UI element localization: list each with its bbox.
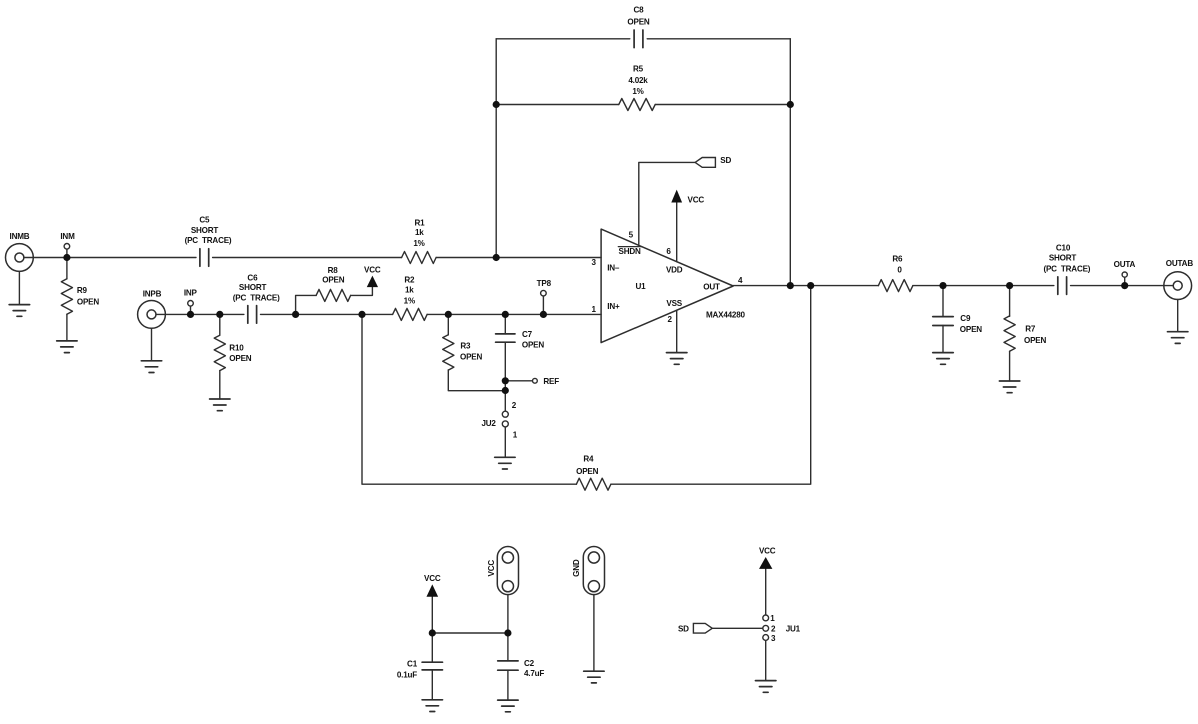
svg-text:4.02k: 4.02k bbox=[628, 76, 648, 85]
svg-text:2: 2 bbox=[771, 625, 776, 634]
svg-text:6: 6 bbox=[666, 247, 671, 256]
svg-text:1k: 1k bbox=[405, 286, 414, 295]
svg-text:4: 4 bbox=[738, 276, 743, 285]
svg-text:SHDN: SHDN bbox=[619, 247, 641, 256]
svg-text:SD: SD bbox=[678, 625, 689, 634]
svg-text:1: 1 bbox=[770, 614, 775, 623]
svg-text:OPEN: OPEN bbox=[627, 18, 649, 27]
svg-text:INP: INP bbox=[184, 289, 198, 298]
svg-text:R3: R3 bbox=[460, 341, 471, 350]
svg-text:TP8: TP8 bbox=[537, 279, 552, 288]
svg-text:C8: C8 bbox=[634, 5, 645, 14]
svg-text:(PC TRACE): (PC TRACE) bbox=[1043, 264, 1090, 273]
svg-text:INM: INM bbox=[60, 232, 75, 241]
svg-text:JU1: JU1 bbox=[786, 625, 801, 634]
svg-text:U1: U1 bbox=[636, 282, 647, 291]
svg-text:(PC TRACE): (PC TRACE) bbox=[185, 236, 232, 245]
svg-text:3: 3 bbox=[771, 634, 776, 643]
svg-text:1%: 1% bbox=[404, 296, 415, 305]
svg-text:0.1uF: 0.1uF bbox=[397, 670, 417, 679]
svg-text:OPEN: OPEN bbox=[576, 467, 598, 476]
svg-text:R7: R7 bbox=[1025, 325, 1036, 334]
svg-text:VCC: VCC bbox=[759, 547, 776, 556]
svg-text:OUTAB: OUTAB bbox=[1166, 259, 1194, 268]
svg-text:R1: R1 bbox=[415, 219, 426, 228]
svg-text:IN–: IN– bbox=[607, 264, 620, 273]
svg-text:SHORT: SHORT bbox=[239, 283, 267, 292]
svg-text:VCC: VCC bbox=[688, 195, 705, 204]
svg-text:VDD: VDD bbox=[666, 266, 683, 275]
svg-text:R6: R6 bbox=[892, 255, 903, 264]
svg-text:5: 5 bbox=[629, 231, 634, 240]
svg-text:R10: R10 bbox=[229, 343, 244, 352]
svg-text:R5: R5 bbox=[633, 65, 644, 74]
svg-text:R8: R8 bbox=[328, 266, 339, 275]
svg-text:OPEN: OPEN bbox=[1024, 336, 1046, 345]
svg-text:VCC: VCC bbox=[487, 560, 496, 577]
svg-text:C5: C5 bbox=[199, 215, 210, 224]
svg-text:MAX44280: MAX44280 bbox=[706, 310, 746, 319]
svg-text:3: 3 bbox=[591, 258, 596, 267]
svg-text:SD: SD bbox=[720, 156, 731, 165]
svg-text:2: 2 bbox=[668, 315, 673, 324]
svg-text:JU2: JU2 bbox=[481, 419, 496, 428]
svg-text:INPB: INPB bbox=[143, 289, 162, 298]
svg-text:4.7uF: 4.7uF bbox=[524, 669, 544, 678]
svg-text:R4: R4 bbox=[583, 454, 594, 463]
svg-text:0: 0 bbox=[897, 265, 902, 274]
svg-text:C10: C10 bbox=[1056, 243, 1071, 252]
svg-text:SHORT: SHORT bbox=[191, 226, 219, 235]
svg-text:OPEN: OPEN bbox=[77, 298, 99, 307]
svg-text:OPEN: OPEN bbox=[960, 325, 982, 334]
svg-text:R2: R2 bbox=[404, 275, 415, 284]
svg-text:2: 2 bbox=[512, 401, 517, 410]
svg-text:IN+: IN+ bbox=[607, 302, 620, 311]
svg-text:VCC: VCC bbox=[364, 265, 381, 274]
svg-text:1: 1 bbox=[513, 430, 518, 439]
svg-text:(PC TRACE): (PC TRACE) bbox=[233, 294, 280, 303]
svg-text:1%: 1% bbox=[632, 87, 643, 96]
svg-text:REF: REF bbox=[543, 377, 559, 386]
svg-text:OUTA: OUTA bbox=[1114, 260, 1136, 269]
svg-text:GND: GND bbox=[572, 559, 581, 577]
svg-text:C1: C1 bbox=[407, 659, 418, 668]
svg-text:R9: R9 bbox=[77, 286, 88, 295]
svg-text:INMB: INMB bbox=[10, 232, 30, 241]
svg-text:VSS: VSS bbox=[666, 299, 682, 308]
svg-text:C7: C7 bbox=[522, 330, 533, 339]
svg-text:OPEN: OPEN bbox=[460, 352, 482, 361]
svg-text:1%: 1% bbox=[413, 239, 424, 248]
svg-text:C6: C6 bbox=[247, 274, 258, 283]
svg-text:OPEN: OPEN bbox=[522, 341, 544, 350]
svg-text:1k: 1k bbox=[415, 228, 424, 237]
svg-text:1: 1 bbox=[591, 305, 596, 314]
svg-text:C2: C2 bbox=[524, 659, 535, 668]
svg-text:OPEN: OPEN bbox=[229, 354, 251, 363]
svg-text:C9: C9 bbox=[960, 314, 971, 323]
svg-text:SHORT: SHORT bbox=[1049, 254, 1077, 263]
svg-text:VCC: VCC bbox=[424, 574, 441, 583]
svg-text:OUT: OUT bbox=[703, 282, 720, 291]
svg-text:OPEN: OPEN bbox=[322, 275, 344, 284]
